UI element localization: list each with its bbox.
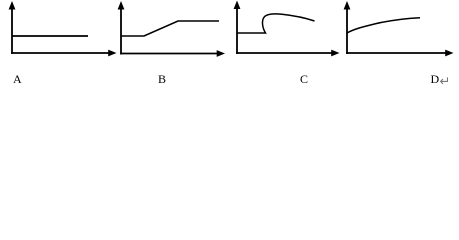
graph C x-axis arrowhead <box>331 50 339 57</box>
graph B y-axis <box>120 8 122 55</box>
graph C x-axis <box>236 52 332 54</box>
graph B ramp curve <box>121 21 219 36</box>
graph B y-axis arrowhead <box>118 1 125 10</box>
graph D y-axis <box>346 8 348 55</box>
graph C y-axis arrowhead <box>234 1 241 10</box>
svg-text:↵: ↵ <box>440 74 451 89</box>
graph B x-axis arrowhead <box>217 50 225 57</box>
graph D x-axis <box>346 52 446 54</box>
svg-text:C: C <box>300 72 308 86</box>
graph A constant line <box>12 35 88 37</box>
graph A y-axis <box>11 8 13 55</box>
graph D y-axis arrowhead <box>344 1 351 10</box>
graph A x-axis arrowhead <box>108 50 116 57</box>
graph A x-axis <box>11 52 110 54</box>
svg-text:B: B <box>158 72 166 86</box>
graph B x-axis <box>120 53 218 55</box>
graph A y-axis arrowhead <box>9 1 16 10</box>
graph D saturating curve <box>347 18 420 33</box>
graph D x-axis arrowhead <box>445 50 453 57</box>
graph C overshoot curve <box>237 14 315 33</box>
svg-text:A: A <box>13 72 22 86</box>
svg-text:D: D <box>431 72 440 86</box>
graph C y-axis <box>236 7 238 54</box>
